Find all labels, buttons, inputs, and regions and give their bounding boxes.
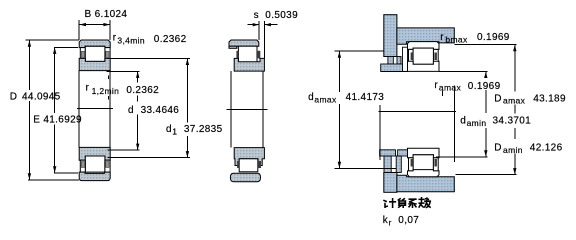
B arrows (79, 23, 86, 26)
break line left (379, 105, 381, 160)
right figure labels (308, 32, 566, 226)
inner ring top (U with right face offset) (234, 58, 264, 71)
d1 extension bottom (108, 157, 191, 159)
bore outline right side (109, 71, 111, 148)
D extension top (26, 39, 80, 41)
svg-text:1: 1 (172, 127, 177, 137)
D_a arrows (513, 45, 516, 51)
roller middle top (238, 46, 257, 62)
d_amax ext top (335, 50, 384, 52)
svg-text:0.1969: 0.1969 (477, 32, 510, 43)
bore outlines middle (230, 71, 232, 148)
housing top block (397, 28, 454, 44)
d extension top (107, 70, 140, 72)
shoulder columns bottom (384, 156, 391, 173)
s dimension (247, 21, 277, 58)
svg-text:amin: amin (467, 118, 487, 128)
E extension bottom (54, 172, 78, 174)
shaft strip top (381, 64, 403, 72)
roller middle bottom (239, 159, 258, 172)
算 (398, 199, 405, 208)
d_amax dim line (338, 51, 340, 92)
svg-text:0.2362: 0.2362 (126, 85, 159, 96)
E dimension line (54, 47, 56, 113)
inner ring bottom section (U upside down) (79, 147, 110, 160)
svg-text:41.4173: 41.4173 (346, 92, 385, 103)
svg-text:d: d (166, 124, 172, 135)
svg-text:0.1969: 0.1969 (468, 81, 501, 92)
D dimension line (28, 40, 30, 90)
bore outline left side (78, 71, 80, 148)
washer gap piece top (403, 47, 408, 71)
d1 extension top (107, 57, 190, 59)
inner ring top section (U shape) (79, 58, 110, 70)
svg-text:amax: amax (439, 82, 462, 92)
outer ring bottom section (79, 172, 110, 181)
centerline left figure (77, 108, 113, 110)
svg-text:amin: amin (503, 145, 523, 155)
housing wall band (384, 15, 397, 57)
svg-text:D: D (10, 92, 18, 103)
svg-text:r: r (389, 218, 392, 228)
outer ring bottom block (230, 173, 260, 181)
outer ring top block (229, 40, 259, 46)
svg-text:bmax: bmax (445, 35, 468, 45)
B extension lines (78, 20, 80, 40)
svg-text:1,2min: 1,2min (92, 86, 120, 96)
housing bottom block (397, 175, 454, 191)
cage bar bottom-left (80, 160, 85, 172)
svg-text:amax: amax (503, 96, 526, 106)
svg-text:33.4646: 33.4646 (141, 105, 180, 116)
shoulder columns top (388, 57, 393, 65)
band bottom part (384, 173, 397, 193)
d1 dimension line (186, 58, 188, 122)
bearing top section (right fig) (408, 42, 440, 72)
svg-text:D: D (494, 143, 502, 154)
inner ring bottom block (234, 148, 264, 166)
bearing bottom section (right fig) (408, 148, 440, 177)
svg-text:37.2835: 37.2835 (184, 124, 223, 135)
svg-text:0,07: 0,07 (398, 215, 419, 226)
d_amax arrows (338, 51, 341, 57)
cage bar top-left (80, 48, 85, 59)
svg-text:3,4min: 3,4min (117, 36, 145, 46)
D_a ext top (454, 44, 516, 46)
cage bars middle top (236, 51, 238, 59)
svg-text:0.2362: 0.2362 (154, 34, 187, 45)
svg-text:44.0945: 44.0945 (22, 92, 61, 103)
svg-text:34.3701: 34.3701 (493, 116, 532, 127)
D_a dim line (514, 45, 516, 92)
chinese text 计算系数 drawn as strokes (384, 198, 430, 208)
d extension bottom (108, 149, 140, 151)
系 (409, 199, 416, 207)
d_amax ext bottom (335, 167, 397, 169)
svg-text:B 6.1024: B 6.1024 (85, 9, 128, 20)
rivet top-right (106, 51, 109, 57)
svg-text:r: r (113, 32, 117, 43)
roller top (85, 46, 105, 61)
housing face line right (454, 86, 456, 163)
svg-text:r: r (86, 83, 90, 94)
r_amax leader (442, 91, 444, 97)
seat line top (381, 70, 408, 72)
centerline middle figure (227, 108, 268, 110)
D arrows (28, 40, 31, 46)
rivet bottom-left (81, 162, 84, 168)
d_amin dim line (485, 71, 487, 76)
计 (384, 199, 395, 207)
cage rivet squares left bearing (81, 51, 109, 167)
svg-text:s: s (254, 10, 259, 21)
shaft strips bottom (380, 150, 396, 156)
d_amin ext bottom (436, 156, 488, 158)
centerline right figure (379, 111, 457, 113)
svg-text:amax: amax (314, 94, 337, 104)
D_a ext bottom (455, 174, 516, 176)
svg-text:r: r (440, 32, 444, 43)
E extension top (54, 46, 78, 48)
d_amin ext top (439, 70, 488, 72)
d arrows (136, 72, 139, 78)
svg-text:E 41.6929: E 41.6929 (33, 115, 82, 126)
left figure labels (10, 9, 223, 135)
svg-text:42.126: 42.126 (530, 143, 563, 154)
E arrows (53, 48, 56, 54)
outer ring top left shoulder (229, 46, 237, 48)
数 (419, 198, 430, 208)
d1 arrows (186, 59, 189, 65)
d_amin arrows (484, 72, 487, 78)
B dimension line (79, 24, 110, 26)
roller bottom (85, 156, 105, 172)
r12 leader dashes (108, 76, 110, 100)
D extension bottom (28, 179, 79, 181)
rivet top-left (81, 51, 84, 57)
d dimension line (137, 71, 139, 82)
cage bars middle bottom (237, 161, 239, 168)
svg-text:0.5039: 0.5039 (265, 10, 298, 21)
svg-text:r: r (434, 80, 438, 91)
outer ring top section (79, 40, 110, 48)
cage bar bottom-right (105, 160, 110, 172)
svg-text:d: d (128, 105, 134, 116)
svg-text:d: d (460, 115, 466, 126)
cage bar top-right (105, 48, 110, 59)
svg-text:d: d (308, 92, 314, 103)
svg-text:43.189: 43.189 (533, 93, 566, 104)
rivet bottom-right (106, 162, 109, 168)
svg-text:D: D (494, 93, 502, 104)
